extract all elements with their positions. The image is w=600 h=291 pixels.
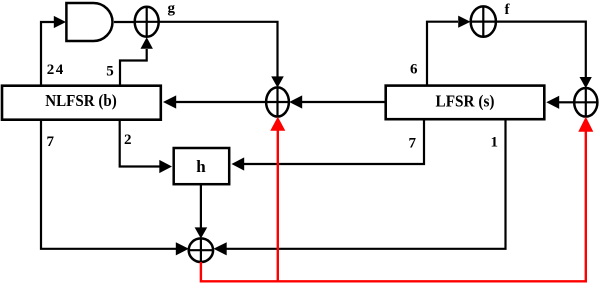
svg-text:LFSR (s): LFSR (s)	[436, 91, 495, 110]
wire: middle XOR output into NLFSR right side	[176, 101, 266, 103]
svg-text:h: h	[196, 157, 206, 176]
wire: LFSR tap 7 left into h box	[244, 120, 424, 164]
wire: right XOR output into LFSR right side	[559, 101, 574, 103]
wire: AND output to XOR g	[114, 21, 136, 23]
LFSR (s) register box	[386, 86, 545, 120]
svg-text:1: 1	[491, 135, 499, 151]
wire: NLFSR tap 24 up to AND gate input	[41, 22, 55, 85]
wire: XOR f output right then down into right XOR	[496, 22, 586, 78]
AND gate	[66, 3, 112, 41]
wire: NLFSR tap 2 down and right into h box	[120, 121, 160, 167]
svg-text:7: 7	[409, 135, 417, 151]
svg-text:2: 2	[124, 132, 132, 148]
wire: LFSR tap 1 down and left into bottom XOR	[227, 120, 506, 249]
XOR middle (NLFSR feedback)	[266, 87, 289, 116]
svg-text:g: g	[168, 0, 176, 16]
XOR right (LFSR feedback)	[574, 88, 597, 117]
svg-text:24: 24	[47, 62, 64, 78]
svg-text:6: 6	[410, 62, 418, 78]
wire: NLFSR tap 7 down and right into bottom XOR	[41, 121, 176, 249]
svg-text:NLFSR (b): NLFSR (b)	[45, 91, 117, 110]
wire: XOR g output right then down into middle XOR	[159, 22, 278, 78]
XOR g	[135, 7, 159, 37]
svg-text:5: 5	[106, 63, 114, 79]
NLFSR (b) register box	[2, 86, 161, 120]
wire: red feedback branch up to middle XOR	[277, 130, 279, 281]
wire: h output down into bottom XOR	[200, 185, 202, 229]
wire: LFSR output left into middle XOR	[302, 101, 385, 103]
XOR bottom (output)	[189, 238, 213, 262]
wire: red feedback from bottom XOR along bottom and up to right XOR	[201, 131, 586, 281]
wire: LFSR tap 6 up into XOR f	[427, 22, 458, 85]
wire: NLFSR tap 5 up into XOR g bottom	[120, 49, 147, 85]
svg-text:7: 7	[47, 134, 55, 150]
XOR f	[471, 6, 496, 36]
h filter box	[174, 148, 230, 184]
